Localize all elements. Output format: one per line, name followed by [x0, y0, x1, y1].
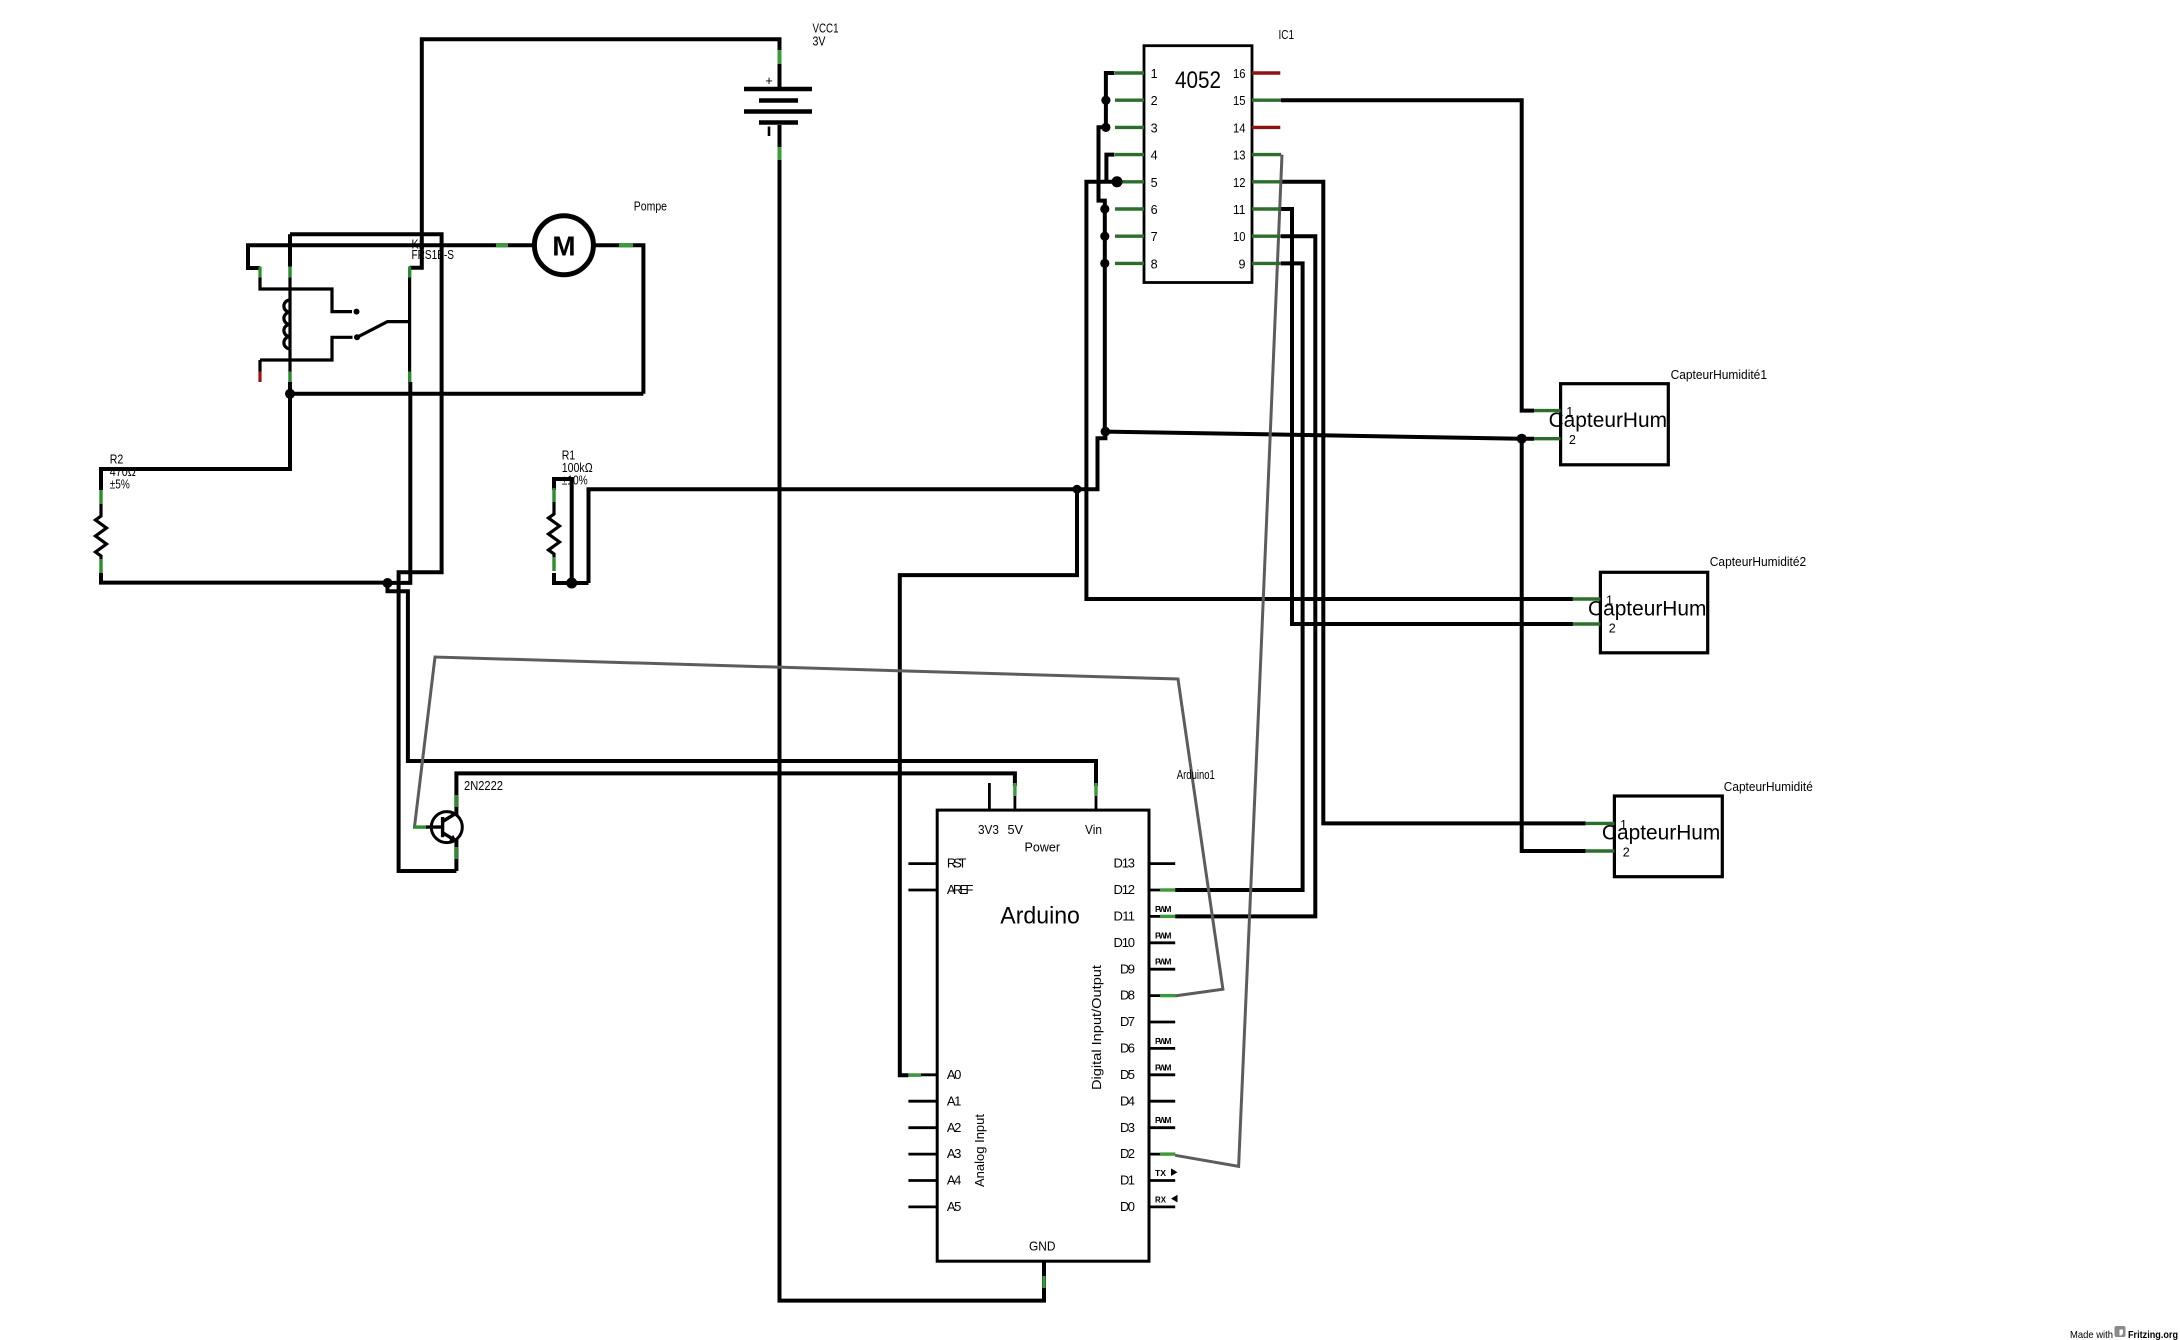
svg-text:Digital Input/Output: Digital Input/Output — [1089, 965, 1104, 1090]
relay coil bottom pin (green) — [288, 372, 291, 383]
wire 4052 pin13 to arduino D2 (grey) — [1175, 155, 1282, 1167]
svg-text:Made with: Made with — [2070, 1329, 2113, 1340]
arduino left pin stubs — [908, 864, 937, 1207]
arduino pin GND green — [1042, 1276, 1045, 1288]
junction node base-junction — [383, 578, 393, 588]
arduino board Arduino1 — [937, 810, 1149, 1261]
junction node IC pin8 — [1100, 259, 1109, 268]
svg-text:1: 1 — [1151, 67, 1158, 81]
wire coil-bottom junction to R2 top — [101, 394, 290, 490]
svg-text:5: 5 — [1151, 176, 1158, 190]
relay pin top-left (green) — [258, 267, 261, 278]
svg-text:Power: Power — [1025, 840, 1061, 855]
IC1 pin 4 lead — [1115, 153, 1144, 156]
svg-text:CapteurHumidité2: CapteurHumidité2 — [1710, 555, 1806, 569]
IC1 pin 10 lead — [1252, 234, 1281, 237]
R2 pin bottom (green) — [99, 559, 102, 573]
svg-text:PWM: PWM — [1155, 1062, 1172, 1072]
junction node bus-sensors — [1101, 427, 1111, 437]
sensor3 pin 2 lead (green) — [1586, 849, 1615, 852]
svg-text:VCC1: VCC1 — [813, 22, 839, 36]
transistor emitter arrow — [449, 835, 457, 842]
transistor collector pin (green) — [455, 795, 458, 807]
junction node A0-tap — [1073, 485, 1082, 494]
wire battery+ to relay common pin — [410, 39, 780, 267]
resistor R1 — [549, 502, 560, 557]
svg-text:6: 6 — [1151, 203, 1158, 217]
svg-text:D11: D11 — [1114, 909, 1136, 924]
junction node R1-bottom — [566, 578, 577, 589]
wire 4052 pin5 bus to sensor2 pin1 — [1086, 182, 1573, 599]
svg-text:RX: RX — [1155, 1194, 1166, 1204]
svg-text:A5: A5 — [947, 1199, 962, 1214]
svg-text:7: 7 — [1151, 230, 1158, 244]
wire base junction to relay common bottom pin — [388, 382, 411, 583]
IC1 pin 16 lead unconnected (red) — [1252, 71, 1280, 74]
svg-text:3V3: 3V3 — [978, 822, 999, 837]
relay NO pin unconnected (red) — [258, 372, 261, 383]
wire 4052 pin4 to pin5 bus — [1106, 155, 1114, 182]
svg-text:D0: D0 — [1120, 1199, 1135, 1214]
svg-text:4052: 4052 — [1175, 67, 1221, 94]
relay coil top pin (green) — [288, 267, 291, 278]
svg-text:2N2222: 2N2222 — [464, 779, 503, 793]
relay common pin bottom (green) — [408, 372, 411, 383]
svg-text:Analog Input: Analog Input — [972, 1114, 987, 1187]
svg-text:4: 4 — [1151, 149, 1158, 163]
motor pin right (green) — [619, 243, 633, 247]
IC1 pin numbers — [1151, 67, 1246, 271]
IC1 pin 7 lead — [1115, 234, 1144, 237]
relay K1 FRS1B-S — [260, 267, 410, 383]
svg-text:2: 2 — [1151, 94, 1158, 108]
wire 4052 pin15 to sensor1 pin1 — [1281, 100, 1534, 410]
arduino pin 5V stub — [1014, 783, 1017, 810]
IC1 pin 15 lead — [1252, 98, 1281, 101]
IC1 pin 5 lead — [1115, 180, 1144, 183]
svg-text:AREF: AREF — [947, 882, 974, 897]
svg-text:1: 1 — [1566, 405, 1573, 419]
wire R1 junction to 4052 left bus — [589, 432, 1106, 583]
svg-text:D8: D8 — [1120, 988, 1135, 1003]
wire 4052 pin12 to sensor3 pin1 — [1281, 182, 1586, 824]
arduino right pin labels — [1114, 856, 1136, 1214]
motor M (Pompe) — [534, 216, 593, 275]
arduino pin D2 green — [1160, 1152, 1175, 1155]
transistor Q1 2N2222 — [431, 812, 462, 843]
svg-text:+: + — [765, 73, 773, 88]
battery pin - (green) — [778, 147, 782, 160]
svg-text:9: 9 — [1238, 257, 1245, 271]
arduino pin Vin stub — [1095, 783, 1098, 810]
sensor2 pin 2 lead (green) — [1573, 622, 1601, 625]
IC1 pin 3 lead — [1115, 126, 1144, 129]
relay common pin top (green) — [408, 267, 411, 278]
IC1 pin 12 lead — [1252, 180, 1281, 183]
sensor module CapteurHumidite1 — [1561, 384, 1669, 465]
svg-text:Fritzing.org: Fritzing.org — [2128, 1329, 2178, 1340]
IC1 pin 14 lead unconnected (red) — [1252, 126, 1280, 129]
IC1 pin 8 lead — [1115, 262, 1144, 265]
wire sensor1 pin2 down to sensor3 pin2 — [1522, 439, 1586, 851]
svg-text:D12: D12 — [1114, 882, 1136, 897]
wire 4052 pin10 to arduino D11 — [1175, 236, 1315, 916]
R1 pin bottom (green) — [552, 557, 555, 571]
junction node IC pin7 — [1100, 232, 1109, 241]
svg-text:PWM: PWM — [1155, 957, 1172, 967]
wire transistor base to arduino D8 (grey) — [415, 657, 1223, 996]
wire R1 top loop to R1 bottom — [554, 479, 572, 583]
svg-text:14: 14 — [1233, 121, 1246, 135]
relay contact dot lower — [354, 334, 360, 340]
svg-text:RST: RST — [947, 856, 967, 871]
transistor emitter pin (green) — [455, 847, 458, 859]
svg-text:GND: GND — [1029, 1239, 1056, 1254]
sensor3 pin 1 lead (green) — [1586, 822, 1615, 825]
arduino PWM labels — [1155, 904, 1172, 1125]
sensor1 pin 1 lead (green) — [1534, 409, 1561, 412]
svg-text:13: 13 — [1233, 149, 1246, 163]
wire R2 bottom to base junction — [101, 573, 388, 583]
wire relay NC pin to motor left — [248, 245, 534, 268]
svg-text:15: 15 — [1233, 94, 1246, 108]
svg-text:3V: 3V — [813, 35, 827, 49]
junction node IC pin2 — [1101, 96, 1110, 105]
svg-text:Pompe: Pompe — [634, 200, 667, 214]
svg-text:D2: D2 — [1120, 1146, 1135, 1161]
svg-text:5V: 5V — [1008, 822, 1024, 837]
svg-text:2: 2 — [1569, 433, 1576, 447]
junction node IC pin5 — [1112, 176, 1123, 187]
wire 4052 pin1 bus down to sensors junction — [1099, 73, 1115, 432]
svg-text:TX: TX — [1155, 1168, 1166, 1178]
wire battery- to arduino GND — [780, 125, 1045, 1301]
svg-text:D10: D10 — [1114, 935, 1136, 950]
wire transistor emitter lead — [454, 839, 458, 871]
IC U1 4052 — [1144, 46, 1252, 283]
svg-text:±10%: ±10% — [562, 474, 588, 488]
svg-text:M: M — [552, 231, 575, 262]
sensor module CapteurHumidite2 — [1600, 572, 1707, 653]
junction node IC pin6 — [1100, 204, 1109, 213]
svg-text:10: 10 — [1233, 230, 1246, 244]
battery pin + (green) — [778, 50, 782, 64]
sensor1 pin 2 lead (green) — [1534, 437, 1561, 440]
arduino pin 5V green — [1013, 783, 1016, 796]
svg-text:CapteurHumidité: CapteurHumidité — [1724, 780, 1813, 794]
wire motor right to coil-bottom junction — [593, 245, 643, 393]
IC1 pin 11 lead — [1252, 207, 1281, 210]
svg-text:CapteurHumidité1: CapteurHumidité1 — [1671, 368, 1767, 382]
sensor2 pin 1 lead (green) — [1573, 597, 1601, 600]
arduino pin D11 green — [1160, 915, 1175, 918]
svg-text:Vin: Vin — [1085, 822, 1102, 837]
resistor R2 — [96, 504, 107, 559]
svg-text:8: 8 — [1151, 257, 1158, 271]
svg-text:3: 3 — [1151, 121, 1158, 135]
relay contact dot upper — [354, 309, 360, 315]
svg-text:D6: D6 — [1120, 1041, 1135, 1056]
sensor module CapteurHumidite3 — [1614, 796, 1722, 877]
arduino pin D12 green — [1160, 888, 1175, 891]
arduino pin A0 green — [908, 1073, 921, 1076]
svg-text:A4: A4 — [947, 1173, 962, 1188]
svg-text:IC1: IC1 — [1279, 28, 1295, 42]
svg-text:D5: D5 — [1120, 1067, 1135, 1082]
svg-text:PWM: PWM — [1155, 1115, 1172, 1125]
arduino pin 3V3 stub — [988, 783, 991, 810]
junction node IC pin3 — [1101, 123, 1110, 132]
svg-text:D9: D9 — [1120, 961, 1135, 976]
junction node sensor1 pin2 — [1517, 434, 1527, 444]
wire A0 junction to arduino A0 — [900, 489, 1077, 1075]
svg-text:PWM: PWM — [1155, 1036, 1172, 1046]
wire coil-bottom junction to motor-right — [290, 382, 643, 394]
svg-text:PWM: PWM — [1155, 904, 1172, 914]
wire 4052 pin9 to arduino D12 — [1175, 263, 1302, 890]
svg-text:FRS1B-S: FRS1B-S — [412, 248, 455, 262]
svg-text:Arduino: Arduino — [1000, 903, 1080, 930]
svg-text:11: 11 — [1233, 203, 1246, 217]
svg-text:12: 12 — [1233, 176, 1246, 190]
arduino pin D8 green — [1160, 994, 1175, 997]
svg-text:A3: A3 — [947, 1146, 962, 1161]
R1 pin top (green) — [552, 488, 555, 502]
svg-text:2: 2 — [1609, 622, 1616, 636]
battery VCC1 — [744, 89, 812, 136]
wire base junction to arduino Vin — [388, 583, 1097, 786]
arduino right pin stubs — [1149, 864, 1175, 1207]
svg-text:2: 2 — [1623, 846, 1630, 860]
wire R1 bottom horizontal — [554, 573, 589, 583]
wire 4052 bus to sensor1 pin2 — [1105, 432, 1534, 439]
svg-text:Arduino1: Arduino1 — [1177, 768, 1215, 782]
wire relay coil top to transistor emitter — [290, 234, 456, 871]
wire 4052 pin11 to sensor2 pin2 — [1281, 209, 1573, 624]
svg-text:PWM: PWM — [1155, 930, 1172, 940]
wire coil top pin stub — [288, 234, 292, 266]
svg-text:D4: D4 — [1120, 1093, 1135, 1108]
arduino pin Vin green — [1094, 783, 1097, 796]
svg-text:±5%: ±5% — [110, 478, 130, 492]
svg-text:A2: A2 — [947, 1120, 962, 1135]
svg-text:D7: D7 — [1120, 1014, 1135, 1029]
transistor base pin (green) — [413, 825, 426, 828]
svg-text:A0: A0 — [947, 1067, 962, 1082]
svg-text:D1: D1 — [1120, 1173, 1135, 1188]
IC1 pin 9 lead — [1252, 262, 1281, 265]
junction node coil-bottom — [285, 389, 295, 399]
motor pin left (green) — [496, 243, 508, 247]
svg-text:A1: A1 — [947, 1093, 962, 1108]
svg-text:1: 1 — [1620, 818, 1627, 832]
IC1 pin 1 lead — [1115, 71, 1144, 74]
svg-text:D3: D3 — [1120, 1120, 1135, 1135]
IC1 pin 2 lead — [1115, 98, 1144, 101]
R2 pin top (green) — [99, 490, 102, 504]
svg-text:D13: D13 — [1114, 856, 1136, 871]
svg-text:1: 1 — [1606, 594, 1613, 608]
wire transistor collector to arduino 5V — [456, 773, 1015, 816]
svg-text:16: 16 — [1233, 67, 1246, 81]
IC1 pin 6 lead — [1115, 207, 1144, 210]
arduino left pin labels — [947, 856, 974, 1214]
IC1 pin 13 lead — [1252, 153, 1281, 156]
